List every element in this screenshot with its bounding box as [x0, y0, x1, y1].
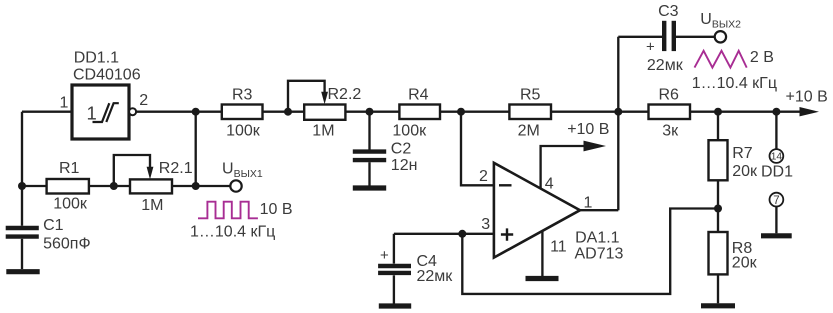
svg-text:R2.2: R2.2 [328, 86, 362, 103]
svg-text:12н: 12н [391, 157, 418, 174]
svg-text:DD1.1: DD1.1 [74, 49, 119, 66]
svg-text:R3: R3 [232, 87, 253, 104]
svg-text:R5: R5 [520, 87, 541, 104]
svg-text:R2.1: R2.1 [159, 160, 193, 177]
svg-text:+10 В: +10 В [786, 89, 828, 106]
svg-text:2: 2 [139, 92, 148, 109]
svg-text:10 В: 10 В [260, 201, 293, 218]
svg-text:C1: C1 [43, 217, 64, 234]
svg-text:AD713: AD713 [575, 246, 624, 263]
svg-text:CD40106: CD40106 [73, 67, 141, 84]
svg-text:1: 1 [60, 95, 69, 112]
svg-text:1М: 1М [141, 197, 163, 214]
svg-text:14: 14 [771, 152, 783, 163]
svg-text:R6: R6 [659, 87, 680, 104]
svg-text:+: + [646, 39, 655, 56]
svg-text:22мк: 22мк [417, 268, 454, 285]
svg-text:R1: R1 [59, 160, 80, 177]
svg-text:560пФ: 560пФ [43, 236, 91, 253]
svg-text:1…10.4 кГц: 1…10.4 кГц [692, 75, 777, 92]
svg-text:+10 В: +10 В [567, 121, 609, 138]
svg-text:2М: 2М [518, 123, 540, 140]
svg-text:7: 7 [773, 195, 779, 207]
svg-text:2: 2 [479, 168, 488, 185]
svg-text:100к: 100к [53, 196, 88, 213]
svg-text:UВЫХ1: UВЫХ1 [222, 161, 263, 181]
svg-text:R4: R4 [408, 87, 429, 104]
svg-text:DA1.1: DA1.1 [575, 230, 620, 247]
svg-text:1М: 1М [312, 123, 334, 140]
svg-text:C3: C3 [658, 3, 679, 20]
svg-text:22мк: 22мк [647, 57, 684, 74]
svg-text:UВЫХ2: UВЫХ2 [700, 11, 741, 31]
svg-text:1: 1 [87, 103, 97, 124]
svg-text:1: 1 [584, 195, 593, 212]
svg-text:11: 11 [550, 238, 567, 255]
svg-text:C2: C2 [391, 141, 412, 158]
svg-text:R7: R7 [732, 145, 753, 162]
svg-text:DD1: DD1 [761, 164, 793, 181]
svg-text:20к: 20к [732, 255, 758, 272]
svg-text:+: + [380, 247, 389, 264]
svg-text:20к: 20к [732, 163, 758, 180]
svg-text:4: 4 [545, 176, 554, 193]
svg-text:3к: 3к [662, 123, 679, 140]
svg-text:100к: 100к [392, 123, 427, 140]
svg-text:100к: 100к [226, 123, 261, 140]
svg-text:2 В: 2 В [750, 49, 774, 66]
svg-text:3: 3 [481, 216, 490, 233]
svg-text:1…10.4 кГц: 1…10.4 кГц [190, 224, 275, 241]
